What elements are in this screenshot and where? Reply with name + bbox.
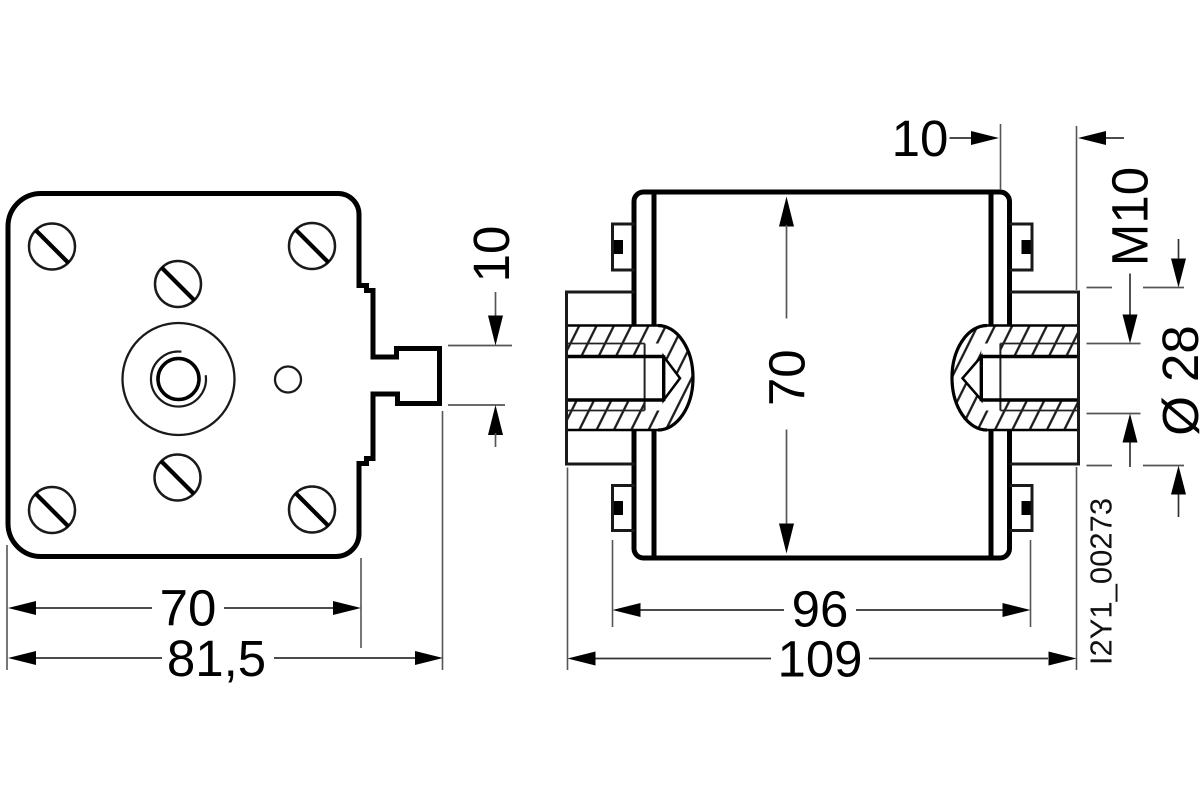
extension line terminal left 109 xyxy=(567,468,569,671)
left thread crest top line xyxy=(567,343,645,345)
svg-text:109: 109 xyxy=(777,630,862,687)
svg-text:96: 96 xyxy=(792,580,849,637)
small pilot hole xyxy=(275,367,301,393)
right bore bottom line xyxy=(981,398,1078,401)
left thread-end white area xyxy=(645,344,664,411)
extension line tab right 81.5 xyxy=(442,411,444,670)
dim-10L lower arrow shaft xyxy=(495,433,497,447)
screw bottom-right xyxy=(289,487,335,533)
left bore top line xyxy=(567,355,664,358)
left terminal outline xyxy=(567,292,635,464)
svg-text:70: 70 xyxy=(160,579,217,636)
mounting clip top-right xyxy=(1010,224,1033,270)
left bushing bulge arc xyxy=(658,326,693,431)
body inner line right xyxy=(989,195,994,556)
dim-10L top terminator line xyxy=(448,345,512,347)
center bore bold circle xyxy=(158,359,199,400)
left drill cone xyxy=(664,357,680,401)
dim-10L lower arrowhead xyxy=(488,405,503,435)
right thread end line xyxy=(999,344,1001,411)
left bore white area xyxy=(567,357,664,401)
mounting clip top-left xyxy=(613,224,635,270)
right thread crest bottom line xyxy=(1000,410,1078,412)
left bore bottom line xyxy=(567,398,664,401)
screw middle-top xyxy=(155,261,201,307)
svg-text:I2Y1_00273: I2Y1_00273 xyxy=(1084,498,1119,665)
left bushing top edge xyxy=(567,324,663,327)
left thread crest bottom line xyxy=(567,410,645,412)
dimension 96 xyxy=(613,603,641,617)
mounting clip bottom-right xyxy=(1010,486,1033,531)
svg-text:10: 10 xyxy=(463,226,520,283)
dim-10L bottom terminator line xyxy=(448,404,505,406)
left bore end line xyxy=(662,355,665,401)
M10 / Ø28 terminator lines xyxy=(1087,287,1113,289)
dimension 70 (left view) xyxy=(8,601,36,615)
extension line clip right 96 xyxy=(1030,540,1032,627)
screw bottom-left xyxy=(29,487,75,533)
right drill cone xyxy=(963,357,982,401)
svg-text:81,5: 81,5 xyxy=(167,630,266,687)
right contact terminal bushing (hatched section) xyxy=(952,326,1079,431)
svg-text:Ø 28: Ø 28 xyxy=(1152,325,1200,436)
dimension Ø 28 xyxy=(1171,259,1186,288)
right bore end line xyxy=(980,355,983,401)
extension line terminal right top xyxy=(1076,126,1078,290)
left thread end line xyxy=(644,344,646,411)
right bore white area xyxy=(981,357,1078,401)
dimension 70 (right view) xyxy=(779,197,794,227)
left contact terminal bushing (hatched section) xyxy=(567,326,694,431)
extension line terminal right bottom xyxy=(1076,467,1078,670)
right bushing bulge arc xyxy=(952,326,987,431)
extension line clip left 96 xyxy=(612,540,614,627)
svg-text:M10: M10 xyxy=(1101,167,1158,266)
extension line plate right 70 xyxy=(360,558,362,648)
body inner line left xyxy=(652,195,657,556)
right bushing bottom edge xyxy=(983,429,1079,432)
dim-10L upper arrowhead xyxy=(488,316,503,346)
right thread crest top line xyxy=(1000,343,1078,345)
center thread arc xyxy=(151,352,206,407)
fuse-base front plate outline xyxy=(8,194,440,557)
screw top-left xyxy=(29,224,75,270)
extension line left edge xyxy=(6,545,8,670)
extension line body right edge xyxy=(1000,124,1002,190)
center boss outer circle xyxy=(123,323,235,435)
dimension 81,5 (left view) xyxy=(8,651,36,665)
svg-text:10: 10 xyxy=(892,110,949,167)
screw middle-bottom xyxy=(155,455,201,501)
right thread-end white area xyxy=(981,344,1000,411)
left bushing bottom edge xyxy=(567,429,663,432)
right bore top line xyxy=(981,355,1078,358)
right terminal outline xyxy=(1010,292,1079,464)
svg-text:70: 70 xyxy=(758,349,815,406)
dimension 109 xyxy=(568,652,596,666)
fuse body side view outline xyxy=(634,192,1010,558)
screw top-right xyxy=(289,223,335,269)
right bushing top edge xyxy=(983,324,1079,327)
dim-10L upper arrow shaft xyxy=(495,292,497,317)
mounting clip bottom-left xyxy=(613,486,635,531)
